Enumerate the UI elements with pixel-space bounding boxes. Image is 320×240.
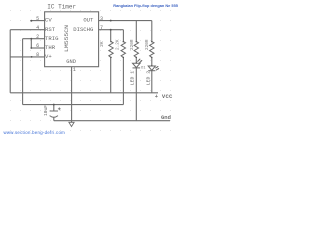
wire LED1 branch top vertical from OUT wire xyxy=(135,21,137,42)
node TRIG junction dot xyxy=(30,38,32,40)
wire R2 top vertical from DISCHG corner xyxy=(122,30,124,42)
wire TRIG vertical to lower rail xyxy=(22,39,24,105)
svg-text:Gnd: Gnd xyxy=(161,114,171,121)
svg-text:220R: 220R xyxy=(130,39,135,50)
svg-text:2.2K: 2.2K xyxy=(115,39,120,50)
wire capacitor bottom lead xyxy=(53,117,55,121)
wire pin1 GND vertical xyxy=(71,67,73,123)
wire capacitor top lead xyxy=(53,105,55,111)
wire VCC rail xyxy=(10,92,158,94)
node dot on V+ wire xyxy=(31,56,33,58)
LED D1 xyxy=(133,59,142,68)
svg-text:LED 2: LED 2 xyxy=(145,71,151,86)
capacitor C1 curved bottom plate xyxy=(50,116,58,118)
IC U1 555 timer body xyxy=(45,12,99,67)
wire TRIG pin2 horizontal xyxy=(23,38,45,40)
svg-text:1: 1 xyxy=(73,67,76,73)
svg-text:DISCHG: DISCHG xyxy=(73,26,94,33)
wire THR to TRIG vertical tie xyxy=(30,39,32,48)
wire R1 top vertical from DISCHG xyxy=(110,30,112,42)
wire RST vertical to VCC rail xyxy=(9,30,11,93)
svg-text:CV: CV xyxy=(45,17,52,24)
LED D2 arrowheads xyxy=(157,66,158,67)
capacitor C1 polarized top plate xyxy=(50,110,58,112)
svg-text:V+: V+ xyxy=(45,53,52,60)
LED D1 arrowheads xyxy=(139,59,140,61)
svg-text:THR: THR xyxy=(45,44,56,51)
svg-text:Rangkaian Flip-flop dengan Ne: Rangkaian Flip-flop dengan Ne 555 xyxy=(113,3,178,8)
node capacitor top junction dot xyxy=(53,104,55,106)
wire OUT pin3 horizontal xyxy=(99,20,152,22)
svg-text:OUT: OUT xyxy=(83,17,94,24)
wire GND horizontal rail xyxy=(54,120,170,122)
wire TRIG/THR rail xyxy=(23,104,124,106)
resistor R3 xyxy=(134,42,138,58)
svg-text:GND: GND xyxy=(66,59,76,65)
wire LED1 cathode vertical to GND rail xyxy=(135,68,137,121)
svg-text:+ VCC: + VCC xyxy=(155,93,173,100)
wire RST pin4 horizontal xyxy=(10,29,44,31)
wire THR pin6 horizontal xyxy=(31,47,44,49)
wire LED2 branch top vertical from OUT corner xyxy=(151,21,153,42)
resistor R1 xyxy=(109,42,113,58)
wire R1 bottom vertical to VCC rail xyxy=(110,58,112,93)
node DISCHG junction dot xyxy=(110,29,112,31)
resistor R2 xyxy=(121,42,125,58)
wire CV stub pin5 xyxy=(31,20,44,22)
svg-text:LED 1: LED 1 xyxy=(130,71,136,86)
LED D2 xyxy=(148,66,159,71)
svg-text:LM555CN: LM555CN xyxy=(63,24,70,52)
wire V+ pin8 horizontal xyxy=(10,56,44,58)
svg-text:2K: 2K xyxy=(99,41,105,47)
svg-text:D1: D1 xyxy=(141,66,145,70)
svg-text:RST: RST xyxy=(45,26,56,33)
LED D2 lead dot xyxy=(151,65,152,66)
capacitor C1 plus sign xyxy=(58,107,61,110)
ground symbol xyxy=(69,122,74,126)
LED D1 lead dot xyxy=(136,62,137,63)
svg-text:IC Timer: IC Timer xyxy=(47,4,76,11)
wire DISCHG pin7 horizontal xyxy=(99,29,124,31)
wire R2 bottom vertical to TRIG rail xyxy=(122,58,124,105)
node THR corner dot xyxy=(30,47,32,49)
wire R4 to LED2 vertical xyxy=(151,58,153,67)
wire R3 to LED1 vertical xyxy=(135,58,137,64)
wire LED2 cathode vertical to VCC rail xyxy=(151,71,153,93)
node OUT junction dot xyxy=(110,20,112,22)
resistor R4 xyxy=(150,42,154,58)
svg-text:10uF: 10uF xyxy=(43,105,49,116)
svg-text:TRIG: TRIG xyxy=(45,35,59,42)
svg-text:220R: 220R xyxy=(145,39,150,50)
node CV stub dot xyxy=(30,20,32,22)
svg-text:www.section.beng-defri.com: www.section.beng-defri.com xyxy=(4,130,66,135)
